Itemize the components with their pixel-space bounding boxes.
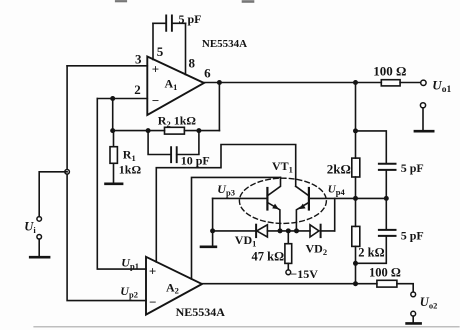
svg-text:Ui: Ui [24, 220, 36, 236]
node dot feedback left [110, 128, 115, 133]
resistor 47 kOhm box [285, 244, 292, 264]
node dot Up4 row at cap chain [384, 196, 389, 201]
wire Ui riser to A2 -input [67, 66, 146, 301]
svg-text:Uo1: Uo1 [432, 77, 451, 95]
diode VD2 cathode bar [320, 225, 322, 237]
node dot on pin2 wire [110, 96, 115, 101]
svg-text:R2 1kΩ: R2 1kΩ [158, 114, 197, 130]
node dot at 263 [353, 261, 358, 266]
svg-text:5 pF: 5 pF [179, 12, 202, 26]
wire pin8 riser [185, 23, 187, 74]
svg-text:47 kΩ: 47 kΩ [252, 249, 285, 263]
svg-text:1kΩ: 1kΩ [119, 163, 142, 177]
wire A1 +input (pin 3) [67, 65, 147, 67]
diode VD1 cathode bar [255, 225, 257, 237]
svg-text:+: + [152, 62, 159, 77]
wire pin5 riser [152, 23, 154, 59]
ground terminal under Uo1: stem and bar [422, 108, 424, 131]
wire 47k tap down [287, 231, 289, 270]
node dot 47k tap [286, 228, 291, 233]
svg-text:A2: A2 [166, 280, 179, 295]
svg-text:Uo2: Uo2 [420, 295, 438, 311]
top edge smudge right [243, 0, 253, 3]
svg-text:3: 3 [135, 52, 142, 67]
svg-text:5 pF: 5 pF [401, 229, 424, 243]
svg-text:2 kΩ: 2 kΩ [358, 246, 384, 260]
node dot Up4 row at 355 [353, 196, 358, 201]
wire upper cap to Up4 row [385, 170, 387, 198]
svg-text:Up4: Up4 [328, 183, 346, 197]
node dot emitter right [294, 228, 299, 233]
svg-text:6: 6 [204, 65, 211, 80]
wire diode row [213, 230, 335, 232]
node terminal circle on Ui riser [65, 170, 70, 175]
op-amp A2 [146, 257, 202, 315]
svg-text:5 pF: 5 pF [401, 161, 424, 175]
transistor VT1 right: emitter arrow [299, 204, 306, 210]
top edge smudge left [116, 0, 126, 2]
svg-text:−: − [152, 93, 159, 108]
resistor 2kOhm (upper) box [352, 158, 360, 177]
wire feedback to A1 output [218, 83, 220, 131]
svg-text:VD2: VD2 [306, 242, 328, 258]
transistor VT1 left: collector [267, 177, 280, 195]
bottom faint scan line [34, 326, 459, 328]
node dot A1 output [217, 80, 222, 85]
node dot right column cap branch [353, 128, 358, 133]
output terminal Uo2 circle [411, 292, 416, 297]
svg-text:100 Ω: 100 Ω [369, 266, 401, 280]
svg-text:8: 8 [188, 56, 195, 71]
wire VT1 collector to A2 comp pin (P1) [156, 145, 295, 262]
svg-text:Up2: Up2 [120, 284, 138, 300]
ground terminal under Uo2: circle [411, 311, 416, 316]
resistor R2 box [165, 127, 185, 134]
svg-text:−15V: −15V [290, 267, 318, 281]
input terminal Ui lower circle [37, 235, 42, 240]
wire dot to feedback row [112, 99, 114, 131]
op-amp A1 [147, 57, 204, 116]
VT1 package dashed ellipse [239, 178, 326, 223]
svg-text:2: 2 [134, 82, 141, 97]
resistor 2 kOhm (lower) box [352, 226, 360, 246]
wire Up3 base lead [213, 197, 268, 199]
ground terminal under Uo1: circle [420, 103, 425, 108]
svg-text:Up3: Up3 [217, 182, 235, 198]
svg-text:VD1: VD1 [235, 233, 257, 249]
svg-text:−: − [149, 295, 156, 310]
wires lower cap chain [356, 198, 387, 263]
svg-text:10 pF: 10 pF [181, 154, 210, 168]
transistor VT1 left: emitter arrow [272, 204, 279, 210]
svg-text:R1: R1 [123, 147, 136, 163]
wire A1 -input (pin 2) [97, 98, 147, 100]
wire 2k lower to A2 out row [355, 246, 357, 283]
svg-text:NE5534A: NE5534A [202, 38, 247, 50]
wire 2k upper to Up4 row [355, 177, 357, 226]
transistor VT1 left: emitter [267, 202, 280, 231]
input terminal Ui upper circle [37, 217, 42, 222]
diode VD1 triangle [257, 225, 268, 237]
output terminal Uo1 circle [421, 80, 426, 85]
ground below Ui [30, 256, 49, 259]
capacitor 10pF loop wires [148, 131, 199, 155]
node dot A2 out row [353, 281, 358, 286]
svg-text:100 Ω: 100 Ω [373, 63, 406, 78]
node dot emitter left [278, 228, 283, 233]
resistor 100 Ohm (top) box [381, 80, 400, 86]
transistor VT1 left: base bar [266, 188, 268, 210]
diode VD2 triangle [310, 225, 319, 237]
wire right column upper [355, 83, 357, 159]
wire left collector to A2 comp pin (P2) [192, 177, 281, 279]
node dot diode row left [210, 228, 215, 233]
node dot Uo1 branch [353, 80, 358, 85]
resistor R1 wires [113, 131, 115, 183]
wire pin2 column to A2 +input [97, 99, 146, 270]
capacitor 10pF plates [171, 147, 177, 162]
wire Ui lower stub [38, 239, 40, 256]
ground below R1 [106, 183, 123, 186]
transistor VT1 right: collector [296, 186, 309, 196]
terminal -15V circle [286, 270, 291, 275]
wire branch to 5pF chain [356, 131, 387, 164]
svg-text:VT1: VT1 [272, 159, 293, 175]
wire A1 output row [204, 82, 421, 84]
wire Up3 down to diode row [212, 198, 214, 231]
capacitor 5pF (upper right) plates [379, 164, 396, 170]
svg-text:Up1: Up1 [121, 256, 139, 272]
ground below diode row left [201, 246, 216, 249]
wire VD2 cathode up to Up4 row [334, 198, 336, 231]
svg-text:2kΩ: 2kΩ [327, 162, 351, 177]
transistor VT1 right: base bar [308, 188, 310, 210]
capacitor 5pF (lower right) plates [379, 230, 396, 236]
transistor VT1 right: emitter [296, 202, 309, 231]
node dot 10pF left [146, 128, 151, 133]
wire Up4 row [309, 197, 386, 199]
wire to ground (diode row left) [212, 231, 214, 246]
svg-text:NE5534A: NE5534A [176, 305, 226, 319]
wire A2 output row [202, 284, 413, 292]
svg-text:+: + [149, 263, 156, 278]
wire feedback row [113, 130, 220, 132]
ground terminal under Uo2: stem and bar [412, 316, 414, 323]
resistor 100 Ohm (bottom) box [377, 280, 397, 287]
svg-text:A1: A1 [165, 77, 178, 92]
resistor R1 box [110, 147, 117, 164]
capacitor C 5pF (over A1) [153, 12, 202, 31]
wire Ui upper stub [39, 172, 67, 217]
svg-text:5: 5 [157, 44, 164, 59]
node dot 10pF right [196, 128, 201, 133]
